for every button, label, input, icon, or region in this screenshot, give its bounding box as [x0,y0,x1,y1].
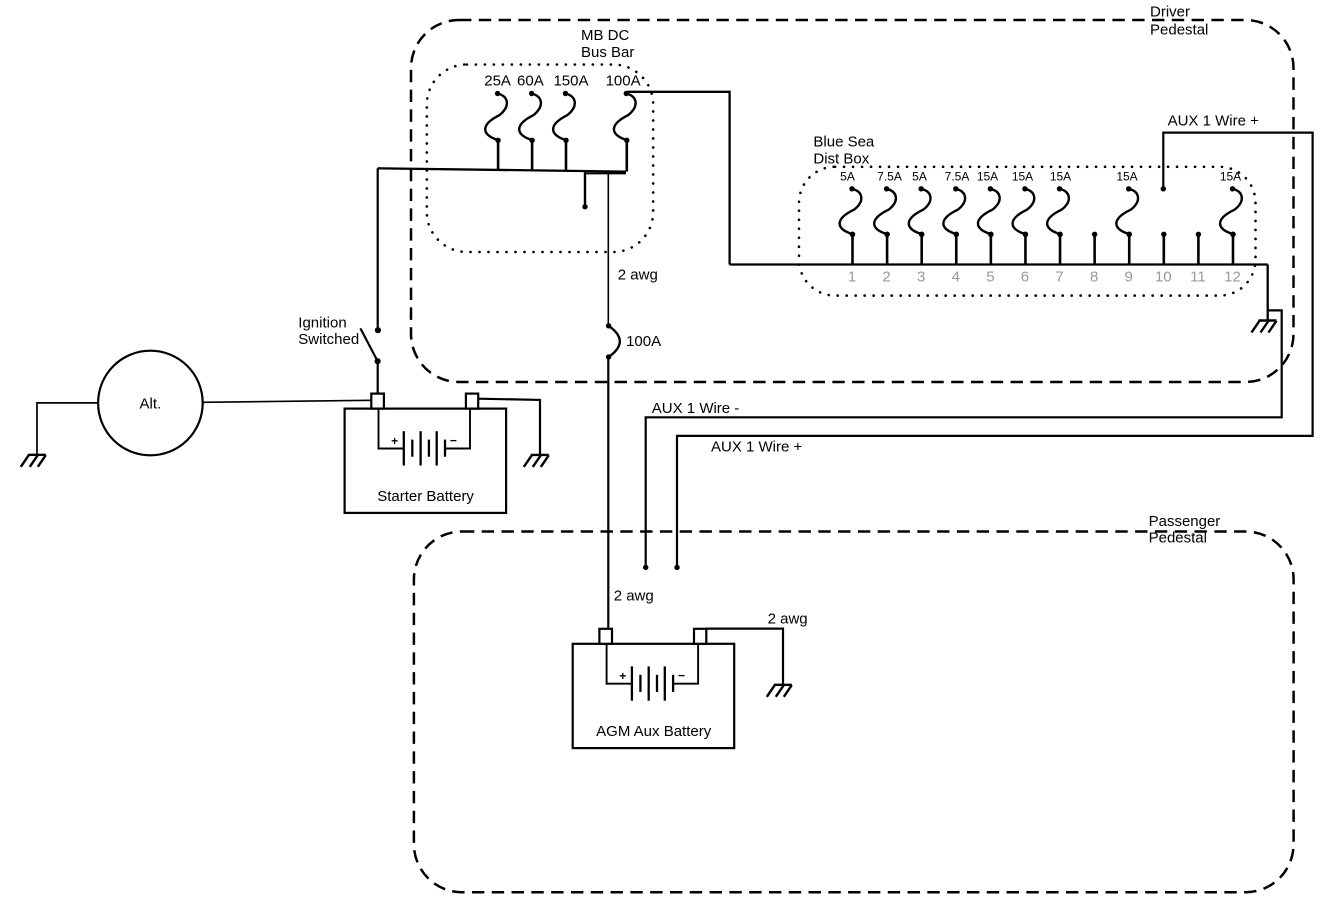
bus bar (MB DC) main conductor [378,168,626,171]
fuse 15A (dist box position 7) [1047,186,1069,237]
svg-text:10: 10 [1155,269,1172,286]
svg-text:150A: 150A [553,72,588,89]
svg-text:+: + [619,669,626,683]
svg-text:9: 9 [1125,269,1133,286]
svg-text:Passenger: Passenger [1149,513,1221,530]
svg-text:−: − [678,669,685,683]
wire: fuse 25A stub to bus bar [497,140,500,170]
node: dist box position 4 terminal [954,232,959,237]
bus: Blue Sea dist box bus [730,263,1268,265]
wire: starter battery - to chassis ground [478,399,540,454]
wire: fuse 60A stub to bus bar [531,140,534,170]
node: dist box position 7 terminal [1057,232,1062,237]
fuse 100A (inline, 2 awg feed) [606,323,620,360]
wire: dist box position 10 stub [1163,234,1166,264]
svg-text:15A: 15A [1116,170,1137,184]
svg-text:Ignition: Ignition [298,315,346,332]
fuse 15A (dist box position 12) [1220,186,1242,237]
enclosure: Driver Pedestal (dashed box) [411,20,1294,382]
svg-text:2: 2 [882,269,890,286]
svg-text:2 awg: 2 awg [768,610,808,627]
svg-text:5A: 5A [840,170,855,184]
wire: dist box position 11 stub [1197,234,1200,264]
enclosure: Passenger Pedestal (dashed box) [414,532,1294,893]
fuse 25A (MB bus bar) [485,91,507,143]
wire: AUX 1 Wire - run (ground bus to passenger pedestal) [646,310,1282,567]
svg-text:8: 8 [1090,269,1098,286]
svg-text:6: 6 [1021,269,1029,286]
battery: Starter Battery [345,394,507,513]
svg-text:7.5A: 7.5A [945,170,970,184]
svg-text:3: 3 [917,269,925,286]
node: dist box position 12 terminal [1230,232,1235,237]
svg-text:Blue Sea: Blue Sea [813,133,875,150]
svg-text:Dist Box: Dist Box [813,151,869,168]
wire: AGM battery - to chassis ground (2 awg) [706,629,783,684]
svg-text:25A: 25A [484,72,511,89]
fuse 7.5A (dist box position 4) [943,186,965,237]
svg-text:12: 12 [1224,269,1241,286]
svg-text:MB DC: MB DC [581,27,630,44]
svg-text:15A: 15A [1220,170,1241,184]
svg-text:7: 7 [1055,269,1063,286]
svg-text:100A: 100A [626,333,661,350]
battery: AGM Aux Battery [573,629,735,748]
wire: ignition switch to starter battery + [377,361,379,394]
enclosure: MB DC Bus Bar (dotted box) [427,65,653,253]
node: AUX 1 Wire + end [674,565,679,570]
svg-text:2 awg: 2 awg [614,588,654,605]
ground: AGM battery chassis ground [767,685,792,697]
node: dist box position 2 terminal [884,232,889,237]
svg-text:Switched: Switched [298,331,359,348]
fuse 60A (MB bus bar) [519,91,541,143]
svg-text:AUX 1 Wire -: AUX 1 Wire - [652,400,740,417]
ground: starter battery chassis ground [524,455,549,467]
svg-text:Bus Bar: Bus Bar [581,44,634,61]
svg-text:Alt.: Alt. [140,395,162,412]
svg-text:Pedestal: Pedestal [1149,530,1207,547]
enclosure: Blue Sea Dist Box (dotted box) [799,167,1256,296]
svg-text:15A: 15A [1012,170,1033,184]
svg-text:7.5A: 7.5A [877,170,902,184]
svg-text:60A: 60A [517,72,544,89]
svg-text:AUX 1 Wire +: AUX 1 Wire + [1168,113,1260,130]
node: dist box position 5 terminal [988,232,993,237]
wire: AUX 1 Wire + run (position 10 to passenger pedestal) [677,133,1313,568]
wire: dist box position 1 stub [851,234,854,264]
fuse 15A (dist box position 9) [1116,186,1138,237]
svg-text:11: 11 [1190,269,1206,286]
wire: bus bar lower edge segment [585,172,626,174]
fuse 15A (dist box position 6) [1013,186,1035,237]
svg-text:+: + [391,434,398,448]
wire: dist box position 4 stub [955,234,958,264]
wire: dist box position 9 stub [1128,234,1131,264]
fuse 7.5A (dist box position 2) [874,186,896,237]
node: dist box position 11 terminal [1196,232,1201,237]
wire: dist box position 6 stub [1024,234,1027,264]
ground: dist box chassis ground [1252,321,1277,333]
node: dist box position 9 terminal [1127,232,1132,237]
svg-text:Starter Battery: Starter Battery [377,488,474,505]
wire: fuse 150A stub to bus bar [565,140,568,170]
wire: dist box position 12 stub [1232,234,1235,264]
wire: dist box position 8 stub [1093,234,1096,264]
switch: ignition switched [360,327,381,364]
fuse 100A (MB bus bar) [614,91,636,143]
svg-text:−: − [450,433,457,447]
svg-text:100A: 100A [606,72,641,89]
alternator Alt. [98,351,203,456]
wire: alternator to chassis ground [37,403,98,454]
svg-text:15A: 15A [977,170,998,184]
fuse 5A (dist box position 1) [840,186,862,237]
ground: alternator chassis ground [21,455,46,467]
wire: dist box position 2 stub [886,234,889,264]
node: AUX 1 Wire + tap at position 10 [1161,186,1166,191]
wire: dist box position 5 stub [990,234,993,264]
fuse 15A (dist box position 5) [978,186,1000,237]
wire: 100A bus-bar output to dist box feed [627,92,729,265]
wire: spare stub below bus bar [584,171,586,206]
svg-text:5: 5 [986,269,994,286]
svg-text:AUX 1 Wire +: AUX 1 Wire + [711,439,803,456]
svg-text:4: 4 [952,269,960,286]
svg-text:1: 1 [848,269,856,286]
svg-text:AGM Aux Battery: AGM Aux Battery [596,723,712,740]
wire: alternator to starter battery + [203,400,372,402]
wire: bus bar to ignition switch [377,168,379,330]
wire: 100A fuse to AGM Aux Battery + (2 awg) [607,357,609,631]
node: AUX 1 Wire - end [643,565,648,570]
wire: dist box position 7 stub [1059,234,1062,264]
svg-text:Driver: Driver [1150,4,1190,21]
svg-text:Pedestal: Pedestal [1150,21,1208,38]
node: dist box position 6 terminal [1023,232,1028,237]
wire: dist bus down to chassis ground [1267,265,1269,320]
wire: bus bar to 100A inline fuse (2 awg) [607,173,609,326]
svg-text:5A: 5A [912,170,927,184]
node: dist box position 1 terminal [850,232,855,237]
fuse 150A (MB bus bar) [553,91,575,143]
node: spare stub end [582,204,587,209]
svg-text:15A: 15A [1050,170,1071,184]
node: dist box position 3 terminal [919,232,924,237]
wire: fuse 100A stub to bus bar [625,140,628,171]
fuse 5A (dist box position 3) [909,186,931,237]
svg-text:2 awg: 2 awg [618,267,658,284]
node: dist box position 8 terminal [1092,232,1097,237]
wire: dist box position 3 stub [920,234,923,264]
node: dist box position 10 terminal [1161,232,1166,237]
